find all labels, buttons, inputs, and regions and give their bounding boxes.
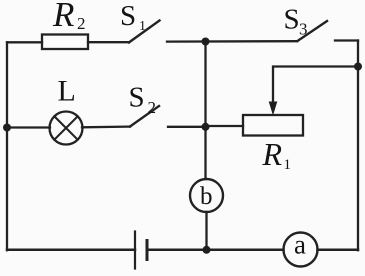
svg-text:S: S: [129, 82, 145, 114]
svg-text:b: b: [200, 183, 213, 210]
ammeter a: [284, 233, 318, 267]
svg-text:R: R: [52, 0, 74, 34]
svg-text:S: S: [284, 4, 300, 36]
wire lamp to S2: [82, 125, 130, 128]
svg-text:1: 1: [139, 19, 146, 34]
wire meter a to right rail: [318, 249, 359, 252]
wire top-left to R2: [7, 41, 42, 43]
wire bottom left to battery: [7, 249, 135, 252]
svg-text:a: a: [294, 230, 306, 260]
R1 wiper arrowhead: [269, 102, 278, 116]
node junction top middle: [202, 38, 210, 46]
wire middle rail node to R1: [206, 125, 244, 127]
svg-text:1: 1: [284, 157, 292, 173]
wire R2 to S1: [88, 41, 129, 43]
wire left rail: [6, 42, 8, 250]
node junction left lamp row: [3, 124, 11, 132]
switch S1 blade: [129, 21, 160, 43]
wire right rail: [357, 41, 359, 251]
svg-text:2: 2: [77, 14, 86, 33]
lamp L: [50, 112, 83, 145]
ammeter-style meter b: [190, 179, 223, 212]
svg-text:L: L: [58, 75, 76, 108]
wire middle rail upper: [204, 42, 206, 180]
rheostat R1 box: [243, 115, 303, 136]
svg-text:3: 3: [299, 20, 308, 39]
node junction right wiper: [354, 63, 362, 71]
switch S3 blade: [298, 21, 328, 41]
wire S3 fixed contact to right rail: [335, 39, 358, 41]
svg-text:S: S: [120, 0, 136, 32]
switch S2 blade: [130, 106, 159, 127]
wire R1 wiper from right rail: [273, 67, 358, 108]
node junction bottom middle: [203, 246, 211, 254]
node junction middle lamp row: [202, 123, 210, 131]
wire battery to meter a: [147, 249, 284, 252]
svg-text:R: R: [262, 136, 283, 172]
resistor R2: [42, 35, 88, 50]
wire lamp row left: [7, 126, 50, 128]
wire middle rail lower: [205, 212, 207, 250]
svg-text:2: 2: [148, 98, 157, 117]
wire S2 fixed contact to middle rail: [168, 126, 206, 128]
battery cell plates: [135, 232, 147, 269]
wire S1 fixed contact to S3: [167, 40, 297, 43]
